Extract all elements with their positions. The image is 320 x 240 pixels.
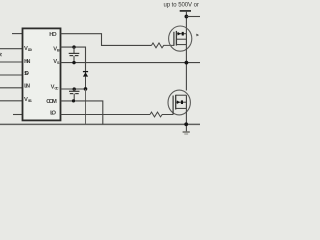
- svg-text:DD: DD: [28, 47, 32, 52]
- svg-text:up to 500V or: up to 500V or: [164, 2, 199, 8]
- wire SD (left pin): [0, 74, 23, 76]
- svg-text:HIN: HIN: [24, 59, 30, 65]
- wire VB: right then down to bootstrap diode: [61, 47, 86, 71]
- stub at LO level (left of IC): [13, 114, 23, 116]
- capacitor C1 (bootstrap, VB-VS): [73, 47, 75, 53]
- ground rail (bottom horizontal net): [0, 123, 200, 125]
- svg-text:SS: SS: [28, 98, 32, 103]
- wire VSS (left pin): [0, 100, 23, 102]
- svg-text:LIN: LIN: [24, 83, 30, 89]
- svg-text:LO: LO: [50, 110, 56, 116]
- wire VS: from pin to right edge (to load): [61, 62, 201, 64]
- svg-text:CC: CC: [54, 86, 58, 91]
- wire VDD (left pin): [0, 48, 23, 50]
- svg-text:HO: HO: [49, 32, 57, 38]
- resistor R1 (high-side gate): [152, 43, 174, 48]
- wire Q1 source down to VS node: [185, 45, 187, 91]
- ground symbol: [183, 131, 190, 133]
- transistor Q2 (low-side MOSFET): [168, 90, 190, 115]
- stub at HO level (left of IC): [12, 33, 23, 35]
- node VCC-cap junction dot: [73, 87, 76, 90]
- wire supply down to drain: [185, 11, 187, 34]
- wire COM: right then down to ground rail: [61, 101, 103, 125]
- wire HO: right from pin: [61, 34, 152, 46]
- node diode anode junction dot: [84, 87, 88, 91]
- resistor R2 (low-side gate): [150, 112, 173, 117]
- node half-bridge midpoint dot: [185, 61, 189, 65]
- wire HIN (left pin): [0, 61, 23, 63]
- svg-text:S: S: [57, 60, 60, 65]
- wire to right edge at supply node: [186, 16, 200, 18]
- supply terminal bar (up to 500V): [180, 10, 191, 12]
- wire LO: right from pin to low-side gate resistor: [61, 114, 151, 116]
- node COM-cap junction dot: [72, 99, 75, 102]
- node supply junction dot: [185, 15, 189, 19]
- IC U1 body: [23, 28, 61, 120]
- wire LIN (left pin): [0, 87, 23, 89]
- svg-text:SD: SD: [24, 71, 29, 77]
- clipped mark at left image edge: [0, 53, 1, 56]
- clipped mark at right edge near Q1: [196, 34, 199, 36]
- node ground rail junction dot: [184, 122, 188, 126]
- diode D1 (bootstrap): [85, 71, 87, 77]
- capacitor C2 (VCC-COM): [73, 89, 75, 91]
- svg-text:B: B: [57, 48, 60, 53]
- transistor Q1 (high-side MOSFET): [169, 26, 192, 51]
- wire Q2 source down to ground rail: [185, 108, 187, 131]
- svg-text:COM: COM: [46, 99, 57, 105]
- wire from VCC node down to ground rail (as drawn): [85, 89, 87, 124]
- wire VCC: right from pin to diode anode: [61, 88, 86, 90]
- node VB junction dot: [72, 45, 75, 48]
- node VS-cap junction dot: [72, 61, 75, 64]
